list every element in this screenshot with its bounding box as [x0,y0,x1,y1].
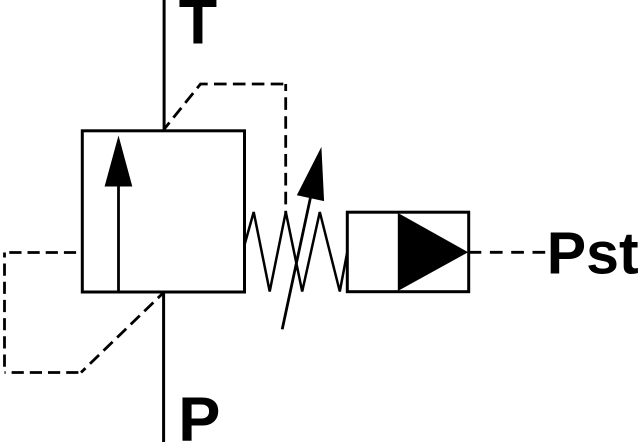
svg-text:P: P [178,385,220,442]
svg-text:T: T [179,0,217,57]
svg-text:Pst: Pst [547,221,639,287]
